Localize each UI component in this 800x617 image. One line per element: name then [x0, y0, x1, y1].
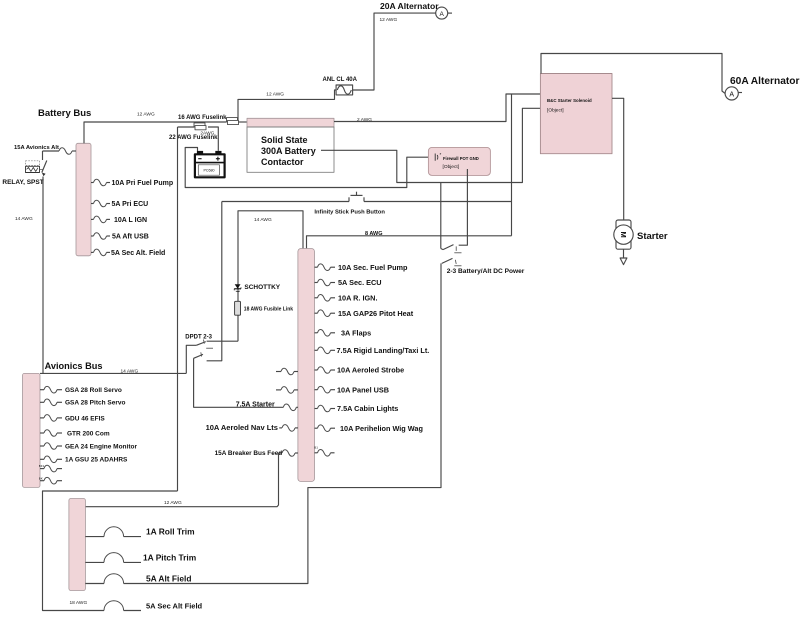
svg-text:5A Pri ECU: 5A Pri ECU	[112, 201, 149, 208]
label Solid State 300A Battery Contactor	[261, 135, 316, 167]
fuse and label 10A L IGN	[91, 216, 147, 224]
svg-text:GTR 200 Com: GTR 200 Com	[67, 430, 110, 437]
svg-text:Battery Bus: Battery Bus	[38, 108, 91, 119]
svg-text:[Object]: [Object]	[443, 164, 460, 170]
svg-text:10A R. IGN.: 10A R. IGN.	[338, 293, 377, 302]
svg-text:10A Sec. Fuel Pump: 10A Sec. Fuel Pump	[338, 263, 408, 272]
wire solenoid to starter motor	[612, 98, 624, 220]
svg-text:PC680: PC680	[204, 169, 215, 173]
fuse and label 10A R. IGN.	[315, 293, 378, 302]
fuse 7.5A Starter left row	[283, 404, 298, 411]
bus bar battery bus	[76, 143, 91, 256]
fuse and label 10A Sec. Fuel Pump	[315, 263, 409, 272]
diode D1 SCHOTTKY	[234, 284, 241, 291]
svg-text:5A Sec Alt Field: 5A Sec Alt Field	[146, 601, 203, 610]
fuse and label GDU 46 EFIS	[40, 415, 105, 423]
fuse ANL CL 40A	[336, 85, 353, 95]
svg-text:10A Aeroled Nav Lts: 10A Aeroled Nav Lts	[206, 423, 278, 432]
wire junction to 2-3 switch upper pole	[440, 183, 442, 249]
fuse and label 10A Perihelion Wig Wag	[315, 424, 423, 433]
svg-text:14 AWG: 14 AWG	[15, 216, 33, 222]
svg-text:12 AWG: 12 AWG	[164, 500, 182, 506]
firewall POT GND box	[428, 147, 490, 175]
svg-text:Contactor: Contactor	[261, 157, 304, 167]
svg-text:GDU 46 EFIS: GDU 46 EFIS	[65, 415, 105, 422]
svg-text:20A Alternator: 20A Alternator	[380, 1, 439, 11]
wire avionics bus feed to DPDT jog	[40, 372, 186, 374]
svg-text:ANL CL 40A: ANL CL 40A	[323, 77, 358, 83]
fuse and label 5A Aft USB	[91, 233, 149, 241]
svg-text:12 AWG: 12 AWG	[380, 17, 398, 23]
breaker and label 1A Pitch Trim	[85, 552, 196, 562]
wire left vertical drop to avionics box right edge	[177, 127, 179, 491]
fuse and label 10A Pri Fuel Pump	[91, 179, 173, 187]
wire 12 AWG breaker bus feed down to trim bus	[85, 453, 278, 507]
wire contactor pin to solenoid pin 2	[321, 108, 540, 182]
breaker and label 5A Alt Field	[85, 574, 191, 584]
fuse and label 3A Flaps	[315, 328, 372, 337]
fuse and label 15A GAP26 Pitot Heat	[315, 309, 414, 318]
bus bar main breaker bus	[298, 249, 315, 482]
svg-text:GSA 28 Roll Servo: GSA 28 Roll Servo	[65, 387, 122, 394]
svg-text:16 AWG Fuselink: 16 AWG Fuselink	[178, 115, 227, 121]
battery B1 PC680	[195, 151, 225, 177]
wire solenoid branch vertical	[511, 94, 513, 236]
svg-text:1A Pitch Trim: 1A Pitch Trim	[143, 552, 196, 562]
wire DPDT upper pole jog to avionics feed	[186, 345, 196, 373]
ground symbol below starter	[620, 249, 627, 264]
wire avionics box bottom to 5A Sec Alt Field breaker	[43, 491, 178, 611]
wire 8 AWG bus top to solenoid branch	[307, 236, 512, 249]
switch S3 DPDT 2-3	[194, 340, 213, 359]
svg-text:Firewall POT GND: Firewall POT GND	[443, 156, 479, 161]
wire push button to solenoid branch	[364, 201, 512, 203]
wire DPDT lower pole to 7.5A Starter fuse	[194, 358, 284, 407]
fuse and label 5A Sec. ECU	[315, 278, 382, 287]
wire bus top to schottky branch	[238, 211, 303, 341]
svg-text:2 AWG: 2 AWG	[357, 117, 372, 123]
fuse and label 5A Pri ECU	[91, 200, 148, 208]
fuse 15A Avionics Alt	[43, 148, 77, 155]
svg-text:10A Pri Fuel Pump: 10A Pri Fuel Pump	[112, 180, 174, 187]
alternator G1 20A ammeter circle	[436, 7, 452, 19]
svg-text:A: A	[729, 91, 734, 98]
fuse unlabeled left stub row 1	[276, 368, 298, 375]
push button S1 Infinity Stick	[349, 192, 364, 202]
motor M1 Starter	[614, 220, 633, 249]
fusible link 18 AWG	[235, 301, 241, 315]
fuse and label 5A Sec Alt. Field	[91, 249, 165, 257]
wire battery minus to firewall ground	[185, 148, 428, 188]
svg-text:1A GSU 25 ADAHRS: 1A GSU 25 ADAHRS	[65, 457, 128, 464]
solenoid K2 B&amp;C Starter Solenoid	[540, 74, 612, 154]
svg-text:7.5A Rigid Landing/Taxi Lt.: 7.5A Rigid Landing/Taxi Lt.	[337, 346, 430, 355]
svg-text:GSA 28 Pitch Servo: GSA 28 Pitch Servo	[65, 400, 125, 407]
wire 20A alternator to ANL fuse	[353, 13, 436, 90]
fuse unlabeled left stub row 2	[276, 387, 298, 394]
svg-text:8 AWG: 8 AWG	[365, 231, 383, 237]
svg-text:Avionics Bus: Avionics Bus	[45, 361, 103, 371]
fuse 10A Aeroled Nav Lts left row	[279, 425, 298, 432]
svg-text:B&C Starter Solenoid: B&C Starter Solenoid	[547, 98, 592, 103]
svg-text:18 AWG Fusible Link: 18 AWG Fusible Link	[244, 306, 293, 312]
wire battery bus top to 16AWG fuselink	[84, 122, 227, 143]
wire DPDT upper throw to schottky line	[207, 340, 238, 342]
breaker and label 5A Sec Alt Field	[104, 601, 203, 611]
svg-text:Infinity Stick Push Button: Infinity Stick Push Button	[314, 210, 385, 216]
contactor U1 terminal bar	[247, 118, 334, 127]
svg-text:14 AWG: 14 AWG	[121, 368, 139, 374]
wire battery plus to 22AWG fuselink	[208, 127, 218, 151]
wire push button run	[222, 201, 349, 203]
svg-text:10A Perihelion Wig Wag: 10A Perihelion Wig Wag	[340, 424, 423, 433]
svg-text:B1: B1	[314, 446, 318, 450]
svg-text:5A Sec. ECU: 5A Sec. ECU	[338, 278, 382, 287]
svg-text:Starter: Starter	[637, 231, 668, 242]
svg-text:7.5A Starter: 7.5A Starter	[236, 401, 275, 408]
fuse unlabeled avionics row 2	[39, 477, 62, 485]
svg-text:10A L IGN: 10A L IGN	[114, 217, 147, 224]
svg-text:SCHOTTKY: SCHOTTKY	[244, 284, 280, 291]
svg-text:M: M	[619, 231, 628, 237]
svg-text:A: A	[440, 11, 445, 18]
relay K1 SPST	[26, 151, 47, 176]
svg-text:5A Sec Alt. Field: 5A Sec Alt. Field	[111, 250, 165, 257]
wire firewall box to 2-3 switch upper throw	[459, 169, 468, 245]
wire 2-3 switch lower pole to 5A Alt Field breaker	[124, 263, 441, 583]
alternator G2 60A ammeter circle	[725, 87, 742, 100]
wire relay to avionics bus feed	[42, 177, 44, 374]
svg-text:5A Aft USB: 5A Aft USB	[112, 234, 149, 241]
fuse and label GTR 200 Com	[40, 430, 110, 438]
svg-text:15A GAP26 Pitot Heat: 15A GAP26 Pitot Heat	[338, 309, 414, 318]
wire fuselink to contactor bar	[239, 121, 248, 123]
svg-text:DPDT 2-3: DPDT 2-3	[185, 334, 212, 340]
svg-text:12 AWG: 12 AWG	[266, 92, 284, 98]
wire DPDT lower throw to push button	[207, 202, 222, 361]
svg-text:5A Alt Field: 5A Alt Field	[146, 574, 191, 584]
breaker and label 1A Roll Trim	[85, 527, 194, 537]
svg-text:[Object]: [Object]	[547, 108, 564, 114]
svg-text:2-3 Battery/Alt DC Power: 2-3 Battery/Alt DC Power	[447, 268, 525, 275]
svg-text:BF1: BF1	[39, 464, 45, 468]
svg-text:GEA 24 Engine Monitor: GEA 24 Engine Monitor	[65, 443, 137, 450]
fuselink 16 AWG	[227, 118, 239, 125]
svg-text:14 AWG: 14 AWG	[254, 217, 272, 223]
svg-text:300A Battery: 300A Battery	[261, 146, 316, 156]
fuse and label 1A GSU 25 ADAHRS	[40, 456, 128, 464]
fuse 15A Breaker Bus Feed left row	[279, 450, 299, 457]
svg-text:10A Aeroled Strobe: 10A Aeroled Strobe	[337, 366, 404, 375]
wire 2 AWG contactor bar to starter solenoid pin 1	[334, 94, 540, 122]
svg-text:18 AWG: 18 AWG	[70, 600, 88, 606]
svg-text:15A Avionics Alt: 15A Avionics Alt	[14, 145, 59, 151]
fuse and label GSA 28 Roll Servo	[40, 386, 122, 394]
contactor U1 Solid State 300A Battery Contactor body	[247, 127, 334, 172]
svg-text:10A Panel USB: 10A Panel USB	[337, 385, 389, 394]
svg-text:15A Breaker Bus Feed: 15A Breaker Bus Feed	[215, 450, 283, 457]
svg-text:60A Alternator: 60A Alternator	[730, 76, 799, 87]
wire ANL fuse to contactor feed junction	[238, 90, 336, 122]
fuse and label 7.5A Cabin Lights	[315, 404, 399, 413]
svg-text:BK: BK	[39, 477, 43, 481]
fuse and label 10A Panel USB	[315, 385, 390, 394]
wire 22AWG fuselink to left drop	[178, 126, 195, 128]
svg-text:RELAY, SPST: RELAY, SPST	[2, 179, 43, 186]
bus bar trim bus	[69, 499, 86, 591]
bus bar avionics	[23, 373, 41, 487]
svg-text:1A Roll Trim: 1A Roll Trim	[146, 527, 195, 537]
svg-text:12 AWG: 12 AWG	[137, 112, 155, 118]
svg-text:3A Flaps: 3A Flaps	[341, 328, 371, 337]
fuselink 22 AWG	[194, 123, 206, 130]
fuse and label GSA 28 Pitch Servo	[40, 399, 125, 407]
fuse and label 7.5A Rigid Landing/Taxi Lt.	[315, 346, 430, 355]
svg-text:7.5A Cabin Lights: 7.5A Cabin Lights	[337, 404, 398, 413]
fuse unlabeled avionics row 1	[39, 464, 62, 472]
fuse unlabeled right row	[314, 446, 334, 457]
wire solenoid top to 60A alternator	[541, 54, 725, 94]
svg-text:22 AWG Fuselink: 22 AWG Fuselink	[169, 135, 218, 141]
switch S2 2-3 Battery/Alt DC Power	[441, 245, 462, 266]
fuse and label 10A Aeroled Strobe	[315, 366, 405, 375]
svg-text:Solid State: Solid State	[261, 135, 308, 145]
fuse and label GEA 24 Engine Monitor	[40, 443, 137, 451]
